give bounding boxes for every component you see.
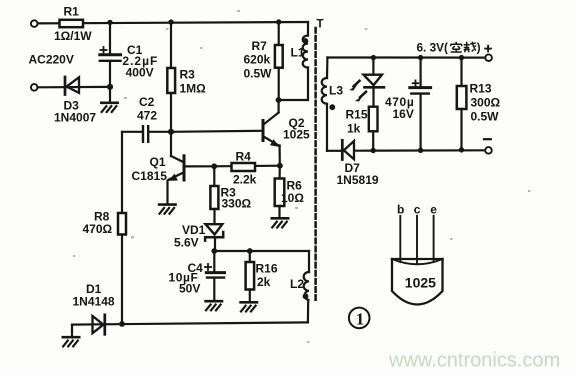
- svg-text:C1815: C1815: [132, 169, 168, 183]
- svg-text:5.6V: 5.6V: [174, 235, 199, 249]
- svg-text:C2: C2: [139, 95, 155, 109]
- svg-text:1N4148: 1N4148: [73, 294, 115, 308]
- svg-text:1025: 1025: [283, 128, 310, 142]
- svg-text:2.2k: 2.2k: [233, 173, 257, 187]
- svg-text:1Ω/1W: 1Ω/1W: [54, 29, 92, 43]
- svg-text:R7: R7: [252, 39, 268, 53]
- svg-text:300Ω: 300Ω: [471, 96, 501, 110]
- svg-text:1: 1: [356, 309, 365, 328]
- svg-text:16V: 16V: [393, 107, 414, 121]
- svg-text:0.5W: 0.5W: [471, 109, 500, 123]
- svg-text:1MΩ: 1MΩ: [180, 81, 207, 95]
- svg-text:R4: R4: [236, 149, 252, 163]
- svg-text:2k: 2k: [257, 275, 271, 289]
- svg-text:e: e: [430, 202, 437, 216]
- svg-text:1N5819: 1N5819: [337, 173, 379, 187]
- svg-text:50V: 50V: [179, 281, 200, 295]
- svg-text:L2: L2: [290, 277, 304, 291]
- svg-text:R1: R1: [64, 5, 80, 19]
- svg-text:1025: 1025: [405, 275, 436, 291]
- svg-text:R16: R16: [256, 262, 278, 276]
- svg-text:R3: R3: [180, 68, 196, 82]
- svg-text:472: 472: [137, 108, 157, 122]
- svg-text:620k: 620k: [244, 53, 271, 67]
- svg-text:L1: L1: [291, 46, 305, 60]
- svg-text:400V: 400V: [126, 65, 154, 79]
- svg-text:): ): [477, 40, 481, 54]
- svg-text:0.5W: 0.5W: [244, 66, 273, 80]
- svg-text:L3: L3: [329, 84, 343, 98]
- svg-text:R13: R13: [470, 82, 492, 96]
- svg-text:470Ω: 470Ω: [83, 222, 113, 236]
- svg-text:R15: R15: [346, 107, 368, 121]
- svg-text:Q1: Q1: [150, 155, 166, 169]
- svg-text:1k: 1k: [347, 121, 361, 135]
- svg-text:c: c: [414, 202, 421, 216]
- svg-text:6. 3V(: 6. 3V(: [417, 40, 449, 54]
- svg-text:1N4007: 1N4007: [54, 110, 96, 124]
- svg-text:AC220V: AC220V: [29, 53, 74, 67]
- svg-text:b: b: [397, 202, 404, 216]
- svg-text:330Ω: 330Ω: [222, 197, 252, 211]
- svg-text:T: T: [317, 18, 324, 30]
- svg-text:www.cntronics.com: www.cntronics.com: [388, 350, 560, 372]
- svg-text:10Ω: 10Ω: [281, 191, 304, 205]
